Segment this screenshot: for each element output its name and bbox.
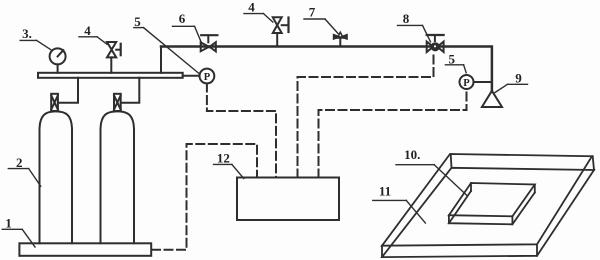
- pressure sensor 5 (left P): [183, 75, 200, 77]
- svg-text:P: P: [463, 78, 470, 89]
- label 7: [309, 5, 316, 20]
- label 5 (right): [449, 51, 456, 66]
- label 11: [379, 183, 391, 198]
- label 10: [404, 147, 420, 162]
- label 8: [403, 11, 410, 26]
- test plate 11 (corner verticals): [450, 154, 453, 168]
- test plate 11 (bottom outline): [382, 168, 594, 257]
- dashed wire: controller to valve 8: [298, 54, 434, 178]
- label 5 (left): [134, 14, 141, 29]
- svg-text:2: 2: [16, 155, 23, 170]
- test plate 11 (top face): [382, 154, 592, 246]
- cylinder base platform 1: [19, 243, 151, 256]
- oil pan 10 (bottom edges): [449, 191, 535, 224]
- svg-text:P: P: [204, 72, 211, 83]
- igniter nozzle 9: [482, 91, 502, 107]
- pressure gauge 3: [57, 64, 59, 72]
- solenoid valve 8: [427, 42, 434, 52]
- cylinder valve (left bottle): [51, 94, 58, 111]
- wire: left bottle to manifold: [58, 78, 78, 103]
- svg-text:4: 4: [84, 23, 91, 38]
- svg-text:1: 1: [5, 216, 12, 231]
- svg-text:11: 11: [379, 183, 391, 198]
- gas cylinder (right): [101, 111, 135, 243]
- label 12: [217, 150, 230, 165]
- label 3: [22, 26, 32, 41]
- label 9: [515, 71, 522, 86]
- svg-text:5: 5: [449, 51, 456, 66]
- label 4 (pipe valve): [248, 0, 255, 14]
- wire: manifold to main pipe: [160, 47, 162, 73]
- valve 4 (on main pipe): [276, 33, 278, 47]
- pressure sensor 5 (right P): [460, 75, 474, 89]
- svg-text:4: 4: [248, 0, 255, 14]
- dashed wire: base to controller: [152, 144, 257, 250]
- manifold bar: [38, 73, 183, 78]
- label 2: [16, 155, 23, 170]
- label 4 (manifold valve): [84, 23, 91, 38]
- gas cylinder 2 (left): [40, 111, 73, 243]
- svg-text:5: 5: [134, 14, 141, 29]
- svg-text:12: 12: [217, 150, 230, 165]
- valve 4 (on manifold): [110, 57, 112, 72]
- dashed wire: controller to right P sensor: [319, 90, 467, 178]
- dashed wire: left P sensor to controller: [207, 84, 276, 178]
- svg-text:7: 7: [309, 5, 316, 20]
- cylinder valve (right bottle): [114, 94, 121, 111]
- valve 6 (reducing valve on pipe): [201, 42, 209, 51]
- safety valve 7: [339, 38, 341, 47]
- svg-text:6: 6: [179, 11, 186, 26]
- svg-text:10.: 10.: [404, 147, 420, 162]
- oil pan 10 (corner verticals): [470, 183, 472, 191]
- oil pan 10 (top face): [449, 183, 535, 216]
- wire: right bottle to manifold: [121, 78, 140, 103]
- controller box 12: [237, 178, 339, 221]
- svg-text:9: 9: [515, 71, 522, 86]
- svg-text:3.: 3.: [22, 26, 32, 41]
- main pipe: [161, 47, 492, 91]
- label 1: [5, 216, 12, 231]
- label 6: [179, 11, 186, 26]
- svg-text:8: 8: [403, 11, 410, 26]
